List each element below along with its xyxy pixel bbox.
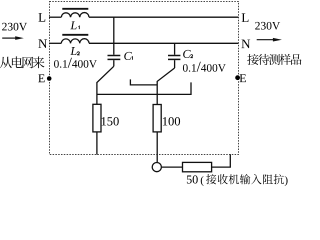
- label 接待测样品 (to sample under test): [247, 54, 258, 65]
- wire from L line down to C1: [113, 17, 115, 55]
- node L (left): [38, 13, 45, 22]
- wire C2 to switch arm: [174, 60, 176, 68]
- resistor R1 150 ohm: [93, 104, 101, 132]
- wire N line (right segment, to EUT side): [89, 42, 238, 44]
- wire terminal to R3: [162, 166, 183, 168]
- wire from N line down to C2: [174, 43, 176, 54]
- switch contact and pick-off wire to receiver node: [130, 79, 157, 85]
- switch arm S2 (C2 thrown to R100 / receiver node): [157, 68, 174, 105]
- node E (right): [240, 74, 246, 82]
- wire R2 bottom lead to output terminal: [156, 132, 158, 162]
- label C1: [124, 52, 132, 60]
- wire R1 bottom lead to earthed case: [96, 132, 98, 155]
- arrow (power flow out to sample): [257, 38, 282, 42]
- node N (left): [38, 39, 47, 48]
- earth terminal dot E (left): [47, 76, 52, 81]
- switch arm S1 (C1 thrown to R150 node): [97, 66, 114, 104]
- node L (right): [242, 13, 249, 22]
- earth terminal dot E (right): [235, 75, 240, 80]
- label 230V (sample side): [255, 22, 260, 30]
- enclosure (dashed shielding case of artificial mains network): [50, 2, 239, 155]
- label L2: [70, 47, 79, 55]
- label L1: [70, 21, 79, 29]
- wire L line (right segment, to EUT side): [89, 16, 238, 18]
- resistor R2 100 ohm: [153, 105, 161, 132]
- wire L line (left segment, mains side): [49, 16, 61, 18]
- capacitor C1: [108, 56, 121, 60]
- wire bus joining switch nodes, with raised contact stub at right end: [97, 82, 191, 94]
- label 230V (mains side): [2, 23, 7, 31]
- output terminal (coaxial socket to receiver): [152, 163, 161, 172]
- value 150 (R1): [102, 117, 106, 125]
- wire N line (left segment, mains side): [49, 42, 61, 44]
- inductor L2: [61, 35, 89, 44]
- label C2: [183, 50, 193, 58]
- label 从电网来 (from the mains): [0, 57, 12, 68]
- node E (left): [38, 74, 44, 82]
- wire R3 to earthed case: [212, 154, 231, 167]
- value 0.1/400V (C1): [54, 60, 59, 68]
- value 50 with note 接收机输入阻抗 (receiver input impedance): [187, 176, 192, 184]
- capacitor C2: [168, 56, 180, 60]
- value 0.1/400V (C2): [183, 64, 188, 72]
- resistor R3 50 ohm (receiver input impedance): [183, 162, 212, 171]
- node N (right): [241, 40, 250, 49]
- value 100 (R2): [163, 117, 167, 125]
- arrow (power flow in from mains): [2, 36, 24, 40]
- inductor L1: [61, 9, 89, 17]
- wire C1 to switch arm: [113, 60, 115, 66]
